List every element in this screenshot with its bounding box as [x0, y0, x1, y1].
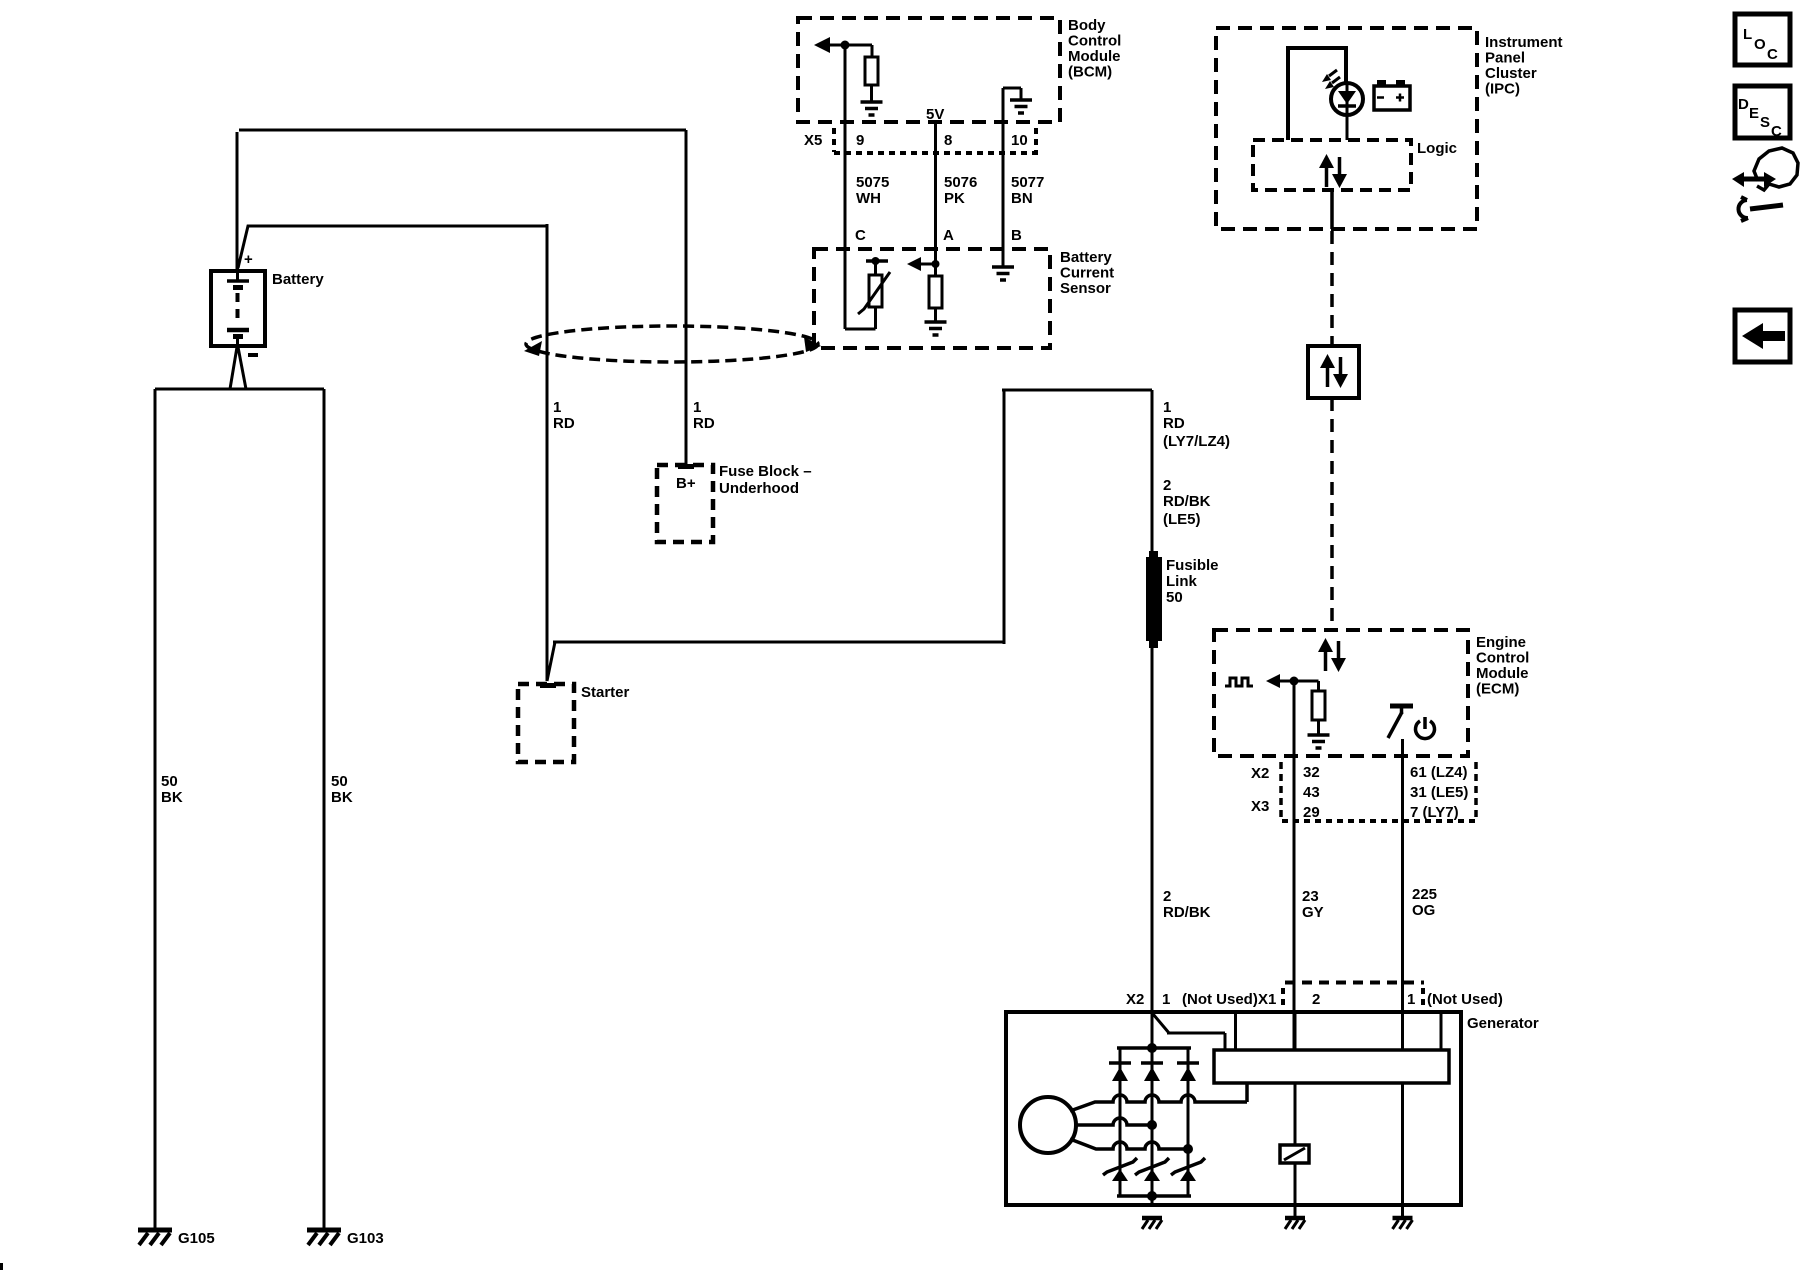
svg-text:1: 1	[1163, 399, 1171, 416]
svg-text:BN: BN	[1011, 190, 1033, 207]
svg-text:(BCM): (BCM)	[1068, 64, 1112, 81]
svg-text:OG: OG	[1412, 902, 1435, 919]
svg-text:1: 1	[553, 399, 561, 416]
svg-text:RD: RD	[693, 415, 715, 432]
svg-text:RD: RD	[1163, 415, 1185, 432]
svg-text:BK: BK	[331, 789, 353, 806]
svg-text:+: +	[244, 251, 253, 268]
svg-text:D: D	[1738, 96, 1749, 113]
svg-text:8: 8	[944, 132, 952, 149]
svg-text:(IPC): (IPC)	[1485, 81, 1520, 98]
svg-text:7 (LY7): 7 (LY7)	[1410, 804, 1459, 821]
svg-text:X1: X1	[1258, 991, 1276, 1008]
svg-text:C: C	[855, 227, 866, 244]
svg-text:Control: Control	[1068, 33, 1121, 50]
svg-text:S: S	[1760, 114, 1770, 131]
svg-text:BK: BK	[161, 789, 183, 806]
svg-text:50: 50	[331, 773, 348, 790]
svg-text:Underhood: Underhood	[719, 480, 799, 497]
svg-text:Battery: Battery	[272, 271, 324, 288]
svg-text:43: 43	[1303, 784, 1320, 801]
svg-text:G105: G105	[178, 1230, 215, 1247]
svg-text:(ECM): (ECM)	[1476, 681, 1519, 698]
svg-text:Current: Current	[1060, 265, 1114, 282]
svg-text:WH: WH	[856, 190, 881, 207]
svg-text:Fuse Block –: Fuse Block –	[719, 463, 812, 480]
svg-text:2: 2	[1163, 477, 1171, 494]
svg-text:50: 50	[161, 773, 178, 790]
svg-text:Cluster: Cluster	[1485, 65, 1537, 82]
svg-text:RD/BK: RD/BK	[1163, 904, 1211, 921]
svg-text:61 (LZ4): 61 (LZ4)	[1410, 764, 1468, 781]
svg-text:Panel: Panel	[1485, 50, 1525, 67]
svg-text:C: C	[1767, 46, 1778, 63]
svg-text:X3: X3	[1251, 798, 1269, 815]
svg-text:Module: Module	[1476, 665, 1529, 682]
svg-text:X2: X2	[1126, 991, 1144, 1008]
svg-text:31 (LE5): 31 (LE5)	[1410, 784, 1468, 801]
svg-text:Engine: Engine	[1476, 634, 1526, 651]
svg-text:RD/BK: RD/BK	[1163, 493, 1211, 510]
svg-text:Fusible: Fusible	[1166, 557, 1219, 574]
svg-text:A: A	[943, 227, 954, 244]
svg-text:X5: X5	[804, 132, 822, 149]
svg-text:L: L	[1743, 26, 1752, 43]
svg-text:Logic: Logic	[1417, 140, 1457, 157]
svg-text:5076: 5076	[944, 174, 977, 191]
svg-text:2: 2	[1312, 991, 1320, 1008]
svg-text:Instrument: Instrument	[1485, 34, 1563, 51]
svg-text:5V: 5V	[926, 106, 944, 123]
svg-text:B+: B+	[676, 475, 696, 492]
svg-text:Battery: Battery	[1060, 249, 1112, 266]
svg-text:32: 32	[1303, 764, 1320, 781]
svg-text:2: 2	[1163, 888, 1171, 905]
svg-text:O: O	[1754, 36, 1766, 53]
svg-text:Control: Control	[1476, 650, 1529, 667]
svg-text:GY: GY	[1302, 904, 1324, 921]
svg-text:G103: G103	[347, 1230, 384, 1247]
svg-text:B: B	[1011, 227, 1022, 244]
svg-text:Generator: Generator	[1467, 1015, 1539, 1032]
svg-text:(Not Used): (Not Used)	[1427, 991, 1503, 1008]
svg-text:Body: Body	[1068, 17, 1106, 34]
svg-text:Module: Module	[1068, 48, 1121, 65]
svg-text:29: 29	[1303, 804, 1320, 821]
svg-text:225: 225	[1412, 886, 1437, 903]
svg-text:Link: Link	[1166, 573, 1197, 590]
svg-text:(LE5): (LE5)	[1163, 511, 1201, 528]
svg-text:C: C	[1771, 123, 1782, 140]
svg-text:50: 50	[1166, 589, 1183, 606]
svg-text:5077: 5077	[1011, 174, 1044, 191]
svg-text:23: 23	[1302, 888, 1319, 905]
svg-text:X2: X2	[1251, 765, 1269, 782]
svg-text:E: E	[1749, 105, 1759, 122]
svg-text:(LY7/LZ4): (LY7/LZ4)	[1163, 433, 1230, 450]
svg-text:Starter: Starter	[581, 684, 630, 701]
svg-text:RD: RD	[553, 415, 575, 432]
svg-text:(Not Used): (Not Used)	[1182, 991, 1258, 1008]
svg-text:1: 1	[1162, 991, 1170, 1008]
svg-text:5075: 5075	[856, 174, 889, 191]
svg-text:1: 1	[693, 399, 701, 416]
svg-text:Sensor: Sensor	[1060, 280, 1111, 297]
svg-text:10: 10	[1011, 132, 1028, 149]
svg-text:9: 9	[856, 132, 864, 149]
svg-text:1: 1	[1407, 991, 1415, 1008]
svg-text:PK: PK	[944, 190, 965, 207]
